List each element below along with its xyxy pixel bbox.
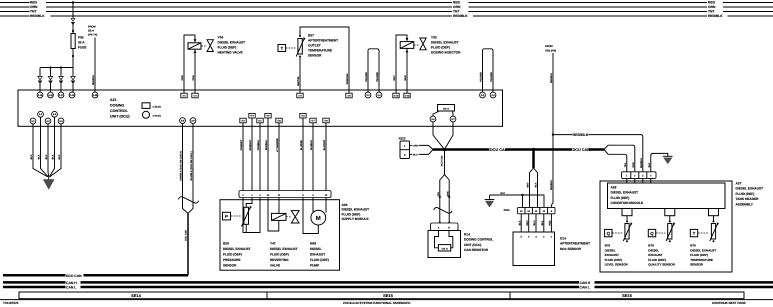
- pin circle DCU top 2-4: [490, 92, 496, 98]
- svg-text:RED/BLK: RED/BLK: [640, 158, 643, 169]
- wire supply w6: [302, 118, 304, 191]
- svg-text:CAN H: CAN H: [580, 281, 591, 285]
- wire 120ohm left leg: [433, 111, 440, 116]
- svg-text:BLK: BLK: [648, 162, 651, 167]
- wire NOx RED/BLK drop: [551, 135, 553, 208]
- wire B70 lead: [713, 216, 715, 222]
- wire RED bus down to connector: [72, 3, 74, 19]
- connector in-line symbol on fuse wire: [71, 18, 75, 21]
- pin square DCU top 1-8: [346, 93, 352, 98]
- wire DCU CAN thick segment 2: [506, 148, 573, 151]
- svg-text:SE16: SE16: [622, 293, 633, 298]
- solenoid valve Y33 dosing injector: [393, 35, 461, 93]
- resistor assembly R14 CAN resistor: [428, 148, 493, 258]
- wire bottom CAN L seg1: [3, 286, 66, 289]
- svg-text:DOSING INJECTOR: DOSING INJECTOR: [431, 51, 461, 55]
- wire supply w1: [242, 123, 244, 191]
- svg-text:RED/BLK: RED/BLK: [550, 180, 553, 191]
- ground arrow main: [43, 177, 54, 189]
- svg-text:RED/BLK: RED/BLK: [573, 133, 589, 137]
- wire Y33 right lead: [406, 48, 408, 93]
- svg-text:CAN H: CAN H: [66, 281, 77, 285]
- wire power branch horizontal: [40, 67, 73, 69]
- svg-text:2-35: 2-35: [93, 94, 98, 97]
- node junction NOx gnd: [521, 194, 523, 196]
- wire connector to fuse: [72, 24, 74, 34]
- wire jumper loop 2: [480, 49, 494, 92]
- thermistor B70: [711, 224, 715, 240]
- svg-text:FLUID (DEF): FLUID (DEF): [690, 253, 708, 257]
- svg-text:P: P: [225, 214, 228, 219]
- svg-text:SE15: SE15: [383, 293, 394, 298]
- wire Y33 left lead: [396, 35, 407, 93]
- svg-text:BLK: BLK: [518, 220, 521, 225]
- svg-text:ORN/BLK (DCU SM CAN H): ORN/BLK (DCU SM CAN H): [180, 151, 183, 181]
- wire gnd 2: [41, 117, 49, 177]
- svg-text:TNT: TNT: [453, 10, 459, 14]
- svg-text:TANK HEADER: TANK HEADER: [736, 197, 760, 201]
- border bottom rule: [0, 299, 773, 301]
- svg-text:UNIT (DCU): UNIT (DCU): [110, 115, 130, 119]
- node junction B37 bottom: [299, 56, 301, 58]
- coil Y04: [188, 43, 201, 49]
- wire bus RED/BLK: [0, 15, 773, 17]
- svg-text:WHT: WHT: [526, 220, 529, 226]
- legend circle connector X2: [143, 111, 162, 118]
- wire RED/BLK from SB9 to DCU: [94, 38, 96, 93]
- wire NOx lead 2: [528, 214, 530, 232]
- svg-text:ORN: ORN: [453, 5, 461, 9]
- svg-text:OUTLET: OUTLET: [308, 44, 321, 48]
- pin circle DCU bottom can res left: [430, 116, 436, 122]
- svg-text:T: T: [280, 46, 283, 51]
- symbol T box B70: [690, 229, 697, 236]
- node junction above fuse: [72, 30, 74, 32]
- svg-text:Y04: Y04: [218, 36, 224, 40]
- node junction R14 tap: [443, 148, 446, 151]
- svg-text:FLUID (DEF): FLUID (DEF): [431, 46, 450, 50]
- svg-text:Y47: Y47: [270, 242, 276, 246]
- pin square DCU top 1-13: [404, 93, 410, 98]
- assembly box A37 tank header: [600, 181, 732, 272]
- wire NOx CAN drop thick: [532, 150, 535, 169]
- svg-text:2: 2: [543, 236, 545, 239]
- node junction branch 1: [49, 66, 51, 68]
- wire NOx lead 1: [520, 214, 522, 232]
- wire power drop 1: [39, 68, 41, 93]
- wire B29 pin2 lead: [243, 198, 260, 233]
- wire NOx CAN split left: [530, 168, 534, 207]
- valve symbol Y04: [207, 40, 213, 52]
- svg-text:1-12: 1-12: [394, 95, 399, 98]
- wire RED/BLK right feed: [552, 53, 554, 135]
- legend square connector X1: [142, 103, 162, 109]
- svg-text:DIESEL: DIESEL: [310, 247, 322, 251]
- node junction on RED bus at fuse tap: [72, 1, 74, 3]
- wire Y04 left lead: [184, 35, 195, 93]
- svg-text:Q: Q: [607, 231, 611, 236]
- symbol T box B37: [278, 45, 286, 52]
- wire supply w4: [267, 118, 269, 191]
- wire bus TAN: [0, 11, 773, 13]
- sensor B37 aftertreatment outlet temperature sensor: [278, 27, 349, 93]
- pin square DCU bottom s1: [240, 118, 246, 123]
- svg-text:M43: M43: [310, 242, 316, 246]
- svg-text:2-17: 2-17: [59, 94, 64, 97]
- svg-text:TNT: TNT: [30, 10, 36, 14]
- svg-text:D14: D14: [560, 237, 566, 241]
- svg-text:SB 9: SB 9: [88, 30, 94, 33]
- wire cond pin stubs: [627, 178, 651, 183]
- svg-text:ORN: ORN: [632, 162, 635, 167]
- svg-text:WHT: WHT: [393, 75, 396, 81]
- wire B75 lead: [669, 216, 671, 222]
- wire power drop 3: [60, 68, 62, 93]
- svg-text:F35: F35: [78, 36, 84, 40]
- svg-text:DIESEL EXHAUST: DIESEL EXHAUST: [270, 247, 298, 251]
- node label A21 DOSING CONTROL UNIT (DCU): [110, 98, 130, 119]
- svg-text:RED: RED: [549, 220, 552, 225]
- svg-text:EXHAUST: EXHAUST: [605, 253, 620, 257]
- valve symbol Y47: [291, 211, 299, 223]
- svg-text:DIESEL EXHAUST: DIESEL EXHAUST: [223, 247, 251, 251]
- wire R14 internal loop: [435, 231, 453, 248]
- pin square DCU bottom s7: [310, 118, 316, 123]
- pin circle DCU bottom gnd 3: [45, 118, 51, 124]
- svg-text:DCU CAN: DCU CAN: [490, 148, 508, 152]
- pin square DCU top 1-1: [181, 93, 187, 98]
- pin square DCU bottom s5: [276, 118, 282, 123]
- wire B29 resistor bottom stub: [245, 224, 247, 232]
- connector bar R14: [431, 223, 459, 231]
- svg-text:CAN L: CAN L: [580, 286, 590, 290]
- svg-text:2-15: 2-15: [48, 94, 53, 97]
- wire R14 drop: [444, 150, 446, 175]
- wire Y33 arrow into coil: [406, 38, 409, 41]
- connector stub quality sensor: [665, 209, 675, 216]
- svg-text:DIESEL EXHAUST: DIESEL EXHAUST: [342, 208, 370, 212]
- svg-text:BLU/BLK (DCU SM CAN L): BLU/BLK (DCU SM CAN L): [190, 151, 193, 180]
- svg-text:CONDITION MODULE: CONDITION MODULE: [611, 201, 644, 205]
- svg-text:a 94-pin: a 94-pin: [153, 114, 162, 117]
- sensor D14 NOx branch: [485, 135, 590, 266]
- svg-text:BLU/BLK: BLU/BLK: [310, 140, 313, 150]
- wire supply CAN H: [183, 124, 189, 214]
- svg-text:ORN: ORN: [192, 75, 195, 80]
- wire X022 pin1 stub: [410, 144, 413, 146]
- wire NOx CAN split right: [534, 168, 538, 207]
- wire ground lead condition module: [651, 153, 668, 174]
- wire NOx gnd drop: [522, 195, 524, 207]
- resistor 120 ohm internal DCU: [433, 105, 455, 117]
- svg-text:BLU/RED: BLU/RED: [300, 140, 303, 151]
- svg-text:3: 3: [535, 236, 537, 239]
- svg-text:DIESEL EXHAUST: DIESEL EXHAUST: [736, 187, 764, 191]
- svg-text:RED/BLK: RED/BLK: [30, 14, 45, 18]
- wire can res left drop: [433, 122, 445, 149]
- pin circle DCU bottom gnd 5: [58, 118, 64, 124]
- svg-text:BLK: BLK: [535, 182, 538, 187]
- svg-text:CONTINUE NEXT PAGE: CONTINUE NEXT PAGE: [712, 301, 746, 305]
- svg-text:DIESEL: DIESEL: [605, 248, 616, 252]
- svg-text:CAN L: CAN L: [66, 286, 76, 290]
- connector stub level sensor: [622, 209, 632, 216]
- svg-text:FLUID (DEF): FLUID (DEF): [648, 258, 666, 262]
- svg-text:SUPPLY MODULE: SUPPLY MODULE: [342, 217, 369, 221]
- wire B37 bottom lead: [299, 57, 301, 94]
- wire fuse to branch: [72, 49, 74, 68]
- svg-text:5: 5: [521, 236, 523, 239]
- sensor B76 DEF level sensor: [605, 216, 633, 267]
- connector in-line symbol drop 2: [48, 76, 52, 79]
- svg-text:BLK: BLK: [501, 192, 506, 195]
- svg-text:1: 1: [404, 145, 406, 148]
- wire M43 bottom loop to pin9: [303, 198, 318, 234]
- svg-text:BLK: BLK: [541, 220, 544, 225]
- resistor B75: [668, 224, 672, 240]
- svg-text:CONTROL: CONTROL: [110, 109, 129, 113]
- svg-text:FLUID (DEF): FLUID (DEF): [605, 258, 623, 262]
- ground chassis condition module: [663, 156, 673, 164]
- wire 120ohm right leg: [452, 111, 455, 116]
- wire R14 split right: [445, 175, 450, 203]
- svg-text:(PB Y4): (PB Y4): [88, 34, 97, 37]
- svg-text:VALVE: VALVE: [270, 264, 280, 268]
- node label FROM SB 9 (PB Y4): [88, 26, 97, 37]
- connector bar condition module: [622, 172, 657, 183]
- svg-text:RED/BLK: RED/BLK: [453, 14, 468, 18]
- wire B29 pin1 lead: [246, 198, 252, 208]
- node label FROM VB3 (PB): [545, 45, 556, 53]
- wire gnd 5: [50, 124, 61, 177]
- pin circle DCU top 2-35: [92, 92, 98, 98]
- svg-text:DOSING CONTROL: DOSING CONTROL: [464, 238, 493, 242]
- svg-text:TNT: TNT: [708, 10, 714, 14]
- pin circle DCU top 2-2: [376, 92, 382, 98]
- svg-text:BLK: BLK: [30, 154, 33, 159]
- svg-text:UNIT (DCU): UNIT (DCU): [464, 243, 481, 247]
- fuse F35: [71, 34, 87, 50]
- svg-text:ORN/WHT: ORN/WHT: [240, 139, 243, 151]
- svg-text:B75: B75: [648, 244, 654, 248]
- svg-text:2-16: 2-16: [38, 94, 43, 97]
- node label A37 tank header assembly: [736, 182, 764, 207]
- svg-text:SE14: SE14: [131, 293, 142, 298]
- box D14 NOx sensor: [513, 232, 555, 266]
- svg-text:BRN: BRN: [404, 75, 407, 80]
- svg-text:120 Ω: 120 Ω: [441, 247, 447, 250]
- wire power drop 4: [72, 68, 74, 93]
- motor M43 DEF pump: [303, 198, 329, 268]
- wire bottom CAN L seg3: [595, 286, 773, 289]
- pin circle DCU top 2-17: [58, 92, 64, 98]
- module box A26 DEF supply module: [220, 200, 340, 271]
- wire NOx lead 5: [550, 214, 552, 232]
- svg-text:FLUID (DEF): FLUID (DEF): [310, 258, 329, 262]
- sensor B70 DEF temperature sensor: [690, 216, 719, 267]
- wire B76 lead: [626, 216, 628, 222]
- svg-text:FLUID (DEF): FLUID (DEF): [270, 253, 289, 257]
- svg-text:SENSOR: SENSOR: [308, 54, 322, 58]
- pin circle DCU bottom gnd 1: [30, 118, 36, 124]
- svg-text:ORN: ORN: [413, 145, 418, 148]
- svg-text:YEL: YEL: [624, 162, 627, 167]
- pin circle DCU top 2-3: [480, 92, 486, 98]
- node label A38 condition module: [611, 186, 644, 206]
- box R14: [428, 231, 461, 258]
- wire gnd 1: [33, 124, 48, 177]
- section bar SE: [19, 292, 744, 299]
- svg-text:DIESEL EXHAUST: DIESEL EXHAUST: [611, 191, 639, 195]
- svg-text:RED: RED: [453, 1, 461, 5]
- pin square DCU bottom s2: [249, 113, 255, 118]
- wire can res right drop: [445, 122, 454, 149]
- wire supply w5: [278, 123, 280, 191]
- sensor B75 DEF quality sensor: [648, 216, 675, 267]
- wire B37 top link: [300, 27, 349, 93]
- wire bottom CAN L seg2: [81, 286, 580, 289]
- wire bottom DCU CAN bus seg2: [84, 274, 189, 277]
- svg-text:FLUID (DEF): FLUID (DEF): [611, 196, 630, 200]
- svg-text:B70: B70: [690, 244, 696, 248]
- ground chassis NOx: [489, 195, 491, 200]
- connector in-line symbol drop 1: [38, 76, 42, 79]
- svg-text:A21: A21: [110, 98, 117, 102]
- svg-text:DIESEL EXHAUST: DIESEL EXHAUST: [690, 248, 716, 252]
- svg-text:AFTERTREATMENT: AFTERTREATMENT: [560, 242, 590, 246]
- svg-text:EXHAUST: EXHAUST: [310, 253, 325, 257]
- op DCU box A21: [18, 90, 503, 126]
- pin circle DCU top 2-15: [48, 92, 54, 98]
- svg-text:RED: RED: [708, 1, 716, 5]
- svg-text:RED/BLK: RED/BLK: [92, 75, 95, 86]
- svg-text:FROM: FROM: [88, 26, 96, 29]
- svg-text:ORN: ORN: [708, 5, 716, 9]
- svg-text:DIESEL EXHAUST: DIESEL EXHAUST: [431, 41, 459, 45]
- svg-text:BLU: BLU: [413, 154, 418, 157]
- svg-text:RED: RED: [30, 1, 38, 5]
- svg-text:FLUID (DEF): FLUID (DEF): [342, 212, 361, 216]
- svg-text:A37: A37: [736, 182, 742, 186]
- wire bottom CAN H seg3: [595, 281, 773, 284]
- wire power drop 2: [50, 68, 52, 93]
- wire M43 pin10 lead: [325, 198, 327, 213]
- svg-text:PRESSURE: PRESSURE: [223, 258, 241, 262]
- wire RED/BLK to condition module seg2: [589, 135, 643, 175]
- svg-text:NOx SENSOR: NOx SENSOR: [560, 247, 582, 251]
- svg-text:CAN RESISTOR: CAN RESISTOR: [464, 248, 489, 252]
- svg-text:A38: A38: [611, 186, 617, 190]
- wire DCU CAN split bottom to pin1: [604, 150, 627, 175]
- connector stub temperature sensor: [709, 209, 719, 216]
- svg-text:EXHAUST: EXHAUST: [648, 253, 663, 257]
- svg-text:BLK: BLK: [52, 154, 55, 159]
- svg-text:BLK: BLK: [38, 154, 41, 159]
- svg-text:PUMP: PUMP: [310, 264, 320, 268]
- svg-text:VB3 (PB): VB3 (PB): [545, 50, 556, 53]
- pin circle DCU bottom gnd 4: [52, 111, 58, 117]
- svg-text:RED/GRN: RED/GRN: [346, 73, 349, 84]
- wire DCU CAN thick segment 1: [433, 148, 490, 151]
- solenoid valve Y04 heating valve: [181, 35, 245, 93]
- svg-text:FLUID (DEF): FLUID (DEF): [223, 253, 242, 257]
- svg-text:Y33: Y33: [431, 36, 437, 40]
- wire bottom CAN H seg2: [81, 281, 580, 284]
- wire Y04 right lead: [194, 49, 196, 93]
- thermistor B37: [298, 39, 302, 55]
- resistor B29: [244, 207, 249, 224]
- wire twisted pair merge to DCU CAN drop: [187, 213, 189, 275]
- svg-text:X016: X016: [504, 209, 511, 212]
- svg-text:TX1197576: TX1197576: [3, 301, 19, 305]
- connector X022: [399, 137, 434, 159]
- svg-text:B76: B76: [605, 244, 611, 248]
- wire R14 twist: [434, 203, 453, 223]
- wire bus ORN: [0, 6, 773, 8]
- svg-text:ORN/BLK: ORN/BLK: [257, 139, 260, 150]
- wire M43 pin3 lead: [312, 198, 314, 212]
- wire DCU CAN split top to pin2: [604, 145, 635, 175]
- svg-text:B29: B29: [223, 242, 229, 246]
- svg-text:2-14: 2-14: [70, 94, 75, 97]
- pin circle DCU top 2-1: [365, 92, 371, 98]
- svg-text:2: 2: [404, 154, 406, 157]
- wire bottom DCU CAN bus seg1: [3, 274, 66, 277]
- svg-text:RED/BLK: RED/BLK: [550, 73, 553, 84]
- svg-text:WHT: WHT: [527, 182, 530, 188]
- svg-text:FUSE: FUSE: [78, 46, 87, 50]
- wire Y04 arrow out of coil: [194, 50, 197, 53]
- wire gnd 3: [47, 124, 50, 177]
- svg-text:YEL/RED: YEL/RED: [480, 72, 483, 82]
- wire NOx lead 3: [535, 214, 537, 232]
- sensor B29 DEF pressure sensor: [223, 198, 261, 268]
- wire RED/BLK to condition module seg1: [553, 134, 572, 136]
- connector bar supply module X1: [239, 191, 331, 198]
- wire X022 pin2 to CAN: [419, 150, 433, 155]
- svg-text:a 35-pin: a 35-pin: [153, 105, 162, 108]
- svg-text:YEL/RED: YEL/RED: [365, 72, 368, 82]
- node junction RED/BLK tap: [552, 133, 554, 135]
- wire NOx lead 4: [543, 214, 545, 232]
- module box A38 condition module: [608, 183, 726, 209]
- pin square DCU top 1-4: [297, 93, 303, 98]
- node junction below fuse: [72, 55, 74, 57]
- symbol P box B29: [223, 212, 231, 220]
- svg-text:FLUID (DEF): FLUID (DEF): [218, 46, 237, 50]
- wire DCU CAN thick segment 3: [589, 148, 605, 151]
- resistor 120 ohm R14: [438, 245, 450, 251]
- motor circle M43: [311, 210, 326, 225]
- wire supply w2: [251, 118, 253, 191]
- svg-text:BRN/WHT: BRN/WHT: [249, 139, 252, 150]
- svg-text:BLK: BLK: [45, 154, 48, 159]
- svg-text:AFTERTREATMENT: AFTERTREATMENT: [308, 39, 338, 43]
- solenoid valve Y47 reverting valve: [268, 198, 299, 268]
- wire R14 split left: [440, 175, 445, 203]
- wire Y47 pin12 lead: [268, 198, 279, 232]
- svg-text:1-13: 1-13: [405, 95, 410, 98]
- svg-text:BRN/BLK: BRN/BLK: [265, 139, 268, 150]
- svg-text:1: 1: [551, 236, 553, 239]
- svg-text:QUALITY SENSOR: QUALITY SENSOR: [648, 263, 675, 267]
- wire gnd 4: [49, 117, 54, 177]
- svg-text:RED/BLK: RED/BLK: [708, 14, 723, 18]
- svg-text:DOSING: DOSING: [110, 104, 124, 108]
- svg-text:T: T: [693, 231, 696, 236]
- svg-text:Q: Q: [650, 231, 654, 236]
- svg-text:DCU CAN: DCU CAN: [441, 155, 444, 166]
